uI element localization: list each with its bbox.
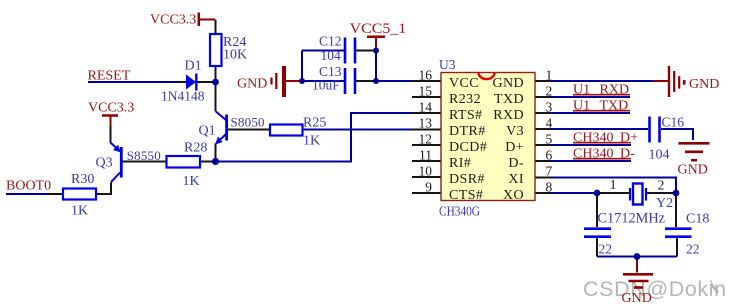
svg-text:S8550: S8550 [127, 148, 161, 163]
svg-text:D-: D- [620, 147, 635, 162]
svg-text:S8050: S8050 [231, 115, 265, 130]
svg-text:GND: GND [689, 77, 719, 92]
svg-text:R30: R30 [71, 172, 94, 187]
svg-text:1K: 1K [71, 204, 88, 219]
svg-text:1K: 1K [183, 174, 200, 189]
svg-text:1N4148: 1N4148 [161, 90, 205, 105]
svg-text:1: 1 [546, 68, 553, 83]
svg-text:6: 6 [546, 148, 553, 163]
svg-text:BOOT0: BOOT0 [6, 179, 51, 194]
svg-text:DTR#: DTR# [449, 124, 486, 139]
svg-text:R28: R28 [184, 141, 207, 156]
svg-text:GND: GND [237, 77, 267, 92]
svg-text:C12: C12 [319, 34, 342, 49]
svg-text:C16: C16 [662, 115, 685, 130]
svg-text:CH340: CH340 [573, 131, 613, 146]
svg-text:U1: U1 [573, 99, 590, 114]
svg-text:D-: D- [508, 156, 524, 171]
svg-text:Q3: Q3 [96, 156, 113, 171]
svg-text:13: 13 [419, 116, 433, 131]
svg-text:RXD: RXD [600, 83, 630, 98]
svg-text:10: 10 [419, 164, 433, 179]
svg-text:16: 16 [419, 68, 433, 83]
svg-text:VCC5_1: VCC5_1 [350, 21, 407, 37]
svg-text:3: 3 [546, 100, 553, 115]
svg-text:Q1: Q1 [199, 124, 216, 139]
svg-text:GND: GND [622, 291, 652, 306]
svg-text:22: 22 [686, 242, 700, 257]
svg-text:TXD: TXD [600, 99, 629, 114]
svg-text:11: 11 [419, 148, 432, 163]
svg-text:12: 12 [419, 132, 433, 147]
svg-text:1K: 1K [303, 134, 320, 149]
svg-text:CSDN@Dokin: CSDN@Dokin [583, 277, 727, 301]
svg-text:V3: V3 [506, 124, 524, 139]
svg-text:VCC3.3: VCC3.3 [88, 101, 134, 116]
svg-text:R25: R25 [303, 116, 326, 131]
svg-text:RESET: RESET [88, 69, 131, 84]
svg-text:R232: R232 [449, 92, 481, 107]
svg-text:RTS#: RTS# [449, 108, 482, 123]
svg-text:GND: GND [678, 163, 708, 178]
svg-text:1: 1 [610, 177, 617, 192]
svg-text:7: 7 [546, 164, 553, 179]
svg-text:22: 22 [599, 242, 613, 257]
svg-text:104: 104 [649, 148, 670, 163]
svg-text:XI: XI [508, 172, 524, 187]
svg-text:Y2: Y2 [656, 196, 673, 211]
svg-text:D1: D1 [185, 59, 202, 74]
svg-text:8: 8 [546, 180, 553, 195]
svg-text:U1: U1 [573, 83, 590, 98]
svg-text:2: 2 [546, 84, 553, 99]
svg-text:D+: D+ [505, 140, 524, 155]
svg-text:104: 104 [321, 48, 342, 63]
svg-text:15: 15 [419, 84, 433, 99]
svg-text:C1712MHz: C1712MHz [598, 211, 666, 227]
svg-text:DSR#: DSR# [449, 172, 485, 187]
svg-text:10uF: 10uF [312, 78, 340, 93]
svg-text:TXD: TXD [494, 92, 524, 107]
svg-text:VCC3.3: VCC3.3 [150, 13, 196, 28]
svg-text:U3: U3 [439, 57, 456, 72]
svg-text:9: 9 [425, 180, 432, 195]
svg-text:10K: 10K [223, 48, 247, 63]
svg-text:RI#: RI# [449, 156, 471, 171]
svg-text:D+: D+ [620, 131, 638, 146]
svg-text:DCD#: DCD# [449, 140, 487, 155]
svg-text:C18: C18 [686, 212, 709, 227]
svg-text:CTS#: CTS# [449, 188, 483, 203]
svg-text:5: 5 [546, 132, 553, 147]
svg-text:CH340G: CH340G [439, 204, 480, 219]
svg-text:RXD: RXD [493, 108, 524, 123]
svg-text:14: 14 [419, 100, 433, 115]
svg-text:XO: XO [503, 188, 524, 203]
svg-text:4: 4 [546, 116, 553, 131]
svg-text:VCC: VCC [449, 76, 479, 91]
svg-text:CH340: CH340 [573, 147, 613, 162]
svg-text:2: 2 [658, 178, 665, 193]
svg-text:GND: GND [492, 76, 524, 91]
